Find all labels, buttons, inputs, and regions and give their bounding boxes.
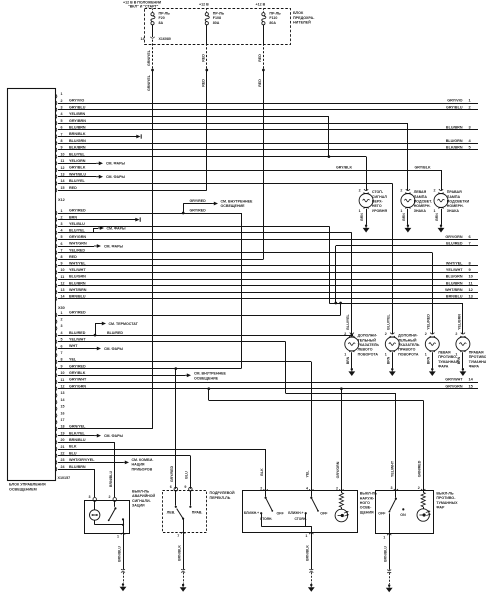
svg-text:ПРИБОРОВ: ПРИБОРОВ	[132, 467, 153, 471]
wire YEL/GRN pin11 offpage to headlamps	[58, 161, 126, 165]
svg-text:6: 6	[61, 344, 63, 348]
lamp license plate left	[400, 188, 432, 232]
turn switch left contact	[167, 490, 177, 514]
wire GRN/YEL X30 pin18 from fuse1	[58, 428, 153, 430]
wire BRN/BLK pin7 offpage	[58, 134, 141, 138]
fuse box border	[145, 9, 291, 45]
svg-text:2: 2	[109, 495, 111, 499]
svg-text:ПОВОРОТА: ПОВОРОТА	[398, 352, 419, 356]
pin 6 connector body X30	[55, 344, 78, 351]
svg-text:23: 23	[61, 458, 65, 462]
pin 24 connector body X30	[55, 465, 86, 472]
svg-text:BLU/BRN: BLU/BRN	[69, 126, 86, 130]
svg-text:АВАРИЙНОЙ: АВАРИЙНОЙ	[132, 494, 156, 498]
svg-text:BRN/BLU: BRN/BLU	[69, 438, 86, 442]
svg-text:BLU/GRN: BLU/GRN	[446, 275, 463, 279]
svg-text:ЗАЦИИ: ЗАЦИИ	[132, 504, 145, 508]
connector X10157 label	[58, 476, 71, 480]
svg-text:ON: ON	[400, 513, 406, 517]
label RED fuse2 below splice	[201, 79, 205, 87]
lamp right turn repeater	[385, 332, 420, 376]
svg-text:ФАР: ФАР	[436, 506, 445, 510]
svg-text:СМ. ФАРЫ: СМ. ФАРЫ	[106, 175, 126, 179]
svg-text:RED: RED	[69, 255, 77, 259]
svg-text:12: 12	[61, 281, 65, 285]
svg-text:BLU/RED: BLU/RED	[107, 331, 123, 335]
svg-text:ВЕРХ-: ВЕРХ-	[372, 200, 384, 204]
light switch illumination lamp	[335, 509, 349, 522]
svg-text:БЛИЖН.+: БЛИЖН.+	[288, 511, 303, 515]
power feed label +12V (3)	[256, 2, 266, 6]
wire YEL/RED X12 pin7 to fog lamp left	[58, 253, 433, 335]
svg-text:BLU/BRN: BLU/BRN	[69, 465, 86, 469]
pin 4 connector body X12	[55, 229, 85, 236]
pin 5 connector body X30	[55, 338, 86, 345]
pin 12 connector body X30	[55, 384, 86, 391]
wire YEL/WHT to fog switch pin3	[286, 342, 396, 491]
ground hazard switch	[120, 583, 127, 591]
svg-text:BRN: BRN	[457, 356, 461, 364]
svg-text:1: 1	[425, 352, 427, 356]
svg-text:ВЫКЛ-ЛЬ: ВЫКЛ-ЛЬ	[360, 492, 378, 496]
svg-text:F108: F108	[213, 16, 221, 20]
svg-text:10: 10	[61, 371, 65, 375]
svg-text:БЛОК: БЛОК	[293, 11, 304, 15]
svg-text:2: 2	[344, 332, 346, 336]
svg-text:СМ. ФАРЫ: СМ. ФАРЫ	[107, 226, 127, 230]
svg-text:BRN/BLU: BRN/BLU	[69, 295, 86, 299]
svg-text:YEL/RED: YEL/RED	[427, 314, 431, 330]
svg-text:ОСВЕЩЕНИЕМ: ОСВЕЩЕНИЕМ	[9, 487, 37, 491]
wire GRY/RED riser to steering column switch	[170, 369, 176, 489]
svg-text:ПРОТИВО-: ПРОТИВО-	[469, 355, 486, 359]
svg-text:1: 1	[344, 352, 346, 356]
wire RED X12 pin8 from fuse3	[58, 259, 263, 261]
lamp license plate right	[434, 188, 470, 232]
svg-text:GRY/WHT: GRY/WHT	[445, 378, 463, 382]
wire GRY/BLU pin3 to right 2	[58, 104, 478, 109]
svg-text:BLU/GRN: BLU/GRN	[69, 275, 86, 279]
fog switch pin 1	[383, 534, 391, 540]
wire YEL/BLU X12 pin3	[58, 226, 330, 303]
pin 16 connector body X30	[55, 411, 64, 418]
pin 3 connector body X30	[55, 324, 62, 331]
ground steering column switch	[180, 584, 187, 592]
pin 4 connector body group1	[55, 112, 85, 119]
svg-text:BLU/YEL: BLU/YEL	[346, 314, 350, 330]
svg-text:GRY/BLK: GRY/BLK	[415, 166, 431, 170]
svg-text:1: 1	[455, 352, 457, 356]
svg-text:ПЕРЕКЛ-ЛЬ: ПЕРЕКЛ-ЛЬ	[210, 496, 231, 500]
wire WHT/YEL X12 pin9 to right 8	[58, 261, 478, 266]
svg-text:21: 21	[61, 445, 65, 449]
wire GRY/RED X30 pin1	[58, 303, 341, 316]
svg-text:3: 3	[89, 495, 91, 499]
svg-text:GRY/RED: GRY/RED	[69, 311, 86, 315]
wire BLU/GRN pin8 to right 4	[58, 138, 478, 144]
svg-text:12: 12	[61, 166, 65, 170]
wire GRY/RED X12 pin1	[58, 213, 241, 215]
svg-text:ПР-ЛЬ: ПР-ЛЬ	[213, 12, 225, 16]
fog switch pin 2	[418, 486, 426, 490]
svg-text:BRN: BRN	[402, 213, 406, 221]
svg-text:2: 2	[434, 188, 436, 192]
svg-text:GRY/BLU: GRY/BLU	[446, 105, 463, 109]
light switch common bus	[261, 526, 311, 533]
svg-text:1: 1	[359, 209, 361, 213]
bus to right fog lamp	[329, 303, 463, 305]
label RED fuse3 below splice	[258, 79, 262, 87]
pin 9 connector body X12	[55, 262, 86, 269]
junction light switch riser on pin12	[340, 387, 343, 390]
pin 9 connector body X30	[55, 364, 86, 371]
svg-text:ПРЕДОХРА-: ПРЕДОХРА-	[293, 16, 315, 20]
svg-text:ФАРА: ФАРА	[438, 365, 449, 369]
svg-text:ЛЕВАЯ: ЛЕВАЯ	[414, 190, 427, 194]
ground fog lamp switch	[386, 584, 393, 592]
light switch label	[360, 492, 378, 515]
svg-text:YEL/BRN: YEL/BRN	[457, 314, 461, 330]
wire RED fuse3 down to X12 pin8 row	[263, 70, 265, 259]
steering column switch label	[210, 491, 236, 500]
svg-text:4: 4	[306, 486, 308, 490]
splice on RED fuse2	[205, 69, 208, 72]
svg-text:УКАЗАТЕЛЬ: УКАЗАТЕЛЬ	[398, 343, 420, 347]
svg-text:BLU/RED: BLU/RED	[69, 331, 86, 335]
svg-text:BRN: BRN	[69, 215, 77, 219]
svg-text:YEL/WHT: YEL/WHT	[390, 460, 394, 477]
lamp left turn repeater	[344, 332, 379, 376]
svg-text:1: 1	[400, 209, 402, 213]
svg-text:13: 13	[61, 391, 65, 395]
pin 12 connector body X12	[55, 281, 86, 288]
hazard switch box	[85, 501, 130, 534]
fuse F108 label	[213, 12, 225, 25]
wire BRN X12 pin2 offpage	[58, 217, 140, 221]
splice on RED fuse3	[262, 69, 265, 72]
wire BLU/RED riser	[335, 246, 337, 303]
svg-text:7: 7	[177, 534, 179, 538]
wire RED fuse2 down to pin15 row	[206, 70, 208, 190]
svg-text:ДОПОЛНИ-: ДОПОЛНИ-	[358, 334, 378, 338]
wire BLU/YEL pin10 to stop lamp	[58, 157, 367, 191]
svg-text:BLU/BRN: BLU/BRN	[446, 281, 463, 285]
hazard switch label	[132, 490, 156, 508]
svg-text:RED: RED	[258, 54, 262, 62]
svg-text:22: 22	[61, 452, 65, 456]
svg-text:10: 10	[469, 274, 473, 279]
junction X30 pin4 branch	[94, 334, 354, 337]
svg-text:BLU: BLU	[69, 451, 77, 455]
svg-text:ЗНАКА: ЗНАКА	[414, 209, 427, 213]
wire fuse1 feed	[152, 9, 154, 13]
svg-text:24: 24	[61, 465, 65, 469]
wire BRN/BLU hazard to ground	[117, 533, 125, 583]
svg-text:F110: F110	[269, 16, 277, 20]
light switch contact A	[244, 491, 285, 526]
wire WHT/BLU pin13 offpage to headlamps	[58, 175, 126, 179]
junction fog pin2 branch on X30 pin12 wire	[207, 387, 210, 390]
pin 6 connector body group1	[55, 126, 86, 133]
wire GRN/RED to fog switch pin2	[209, 389, 424, 491]
svg-text:ЗНАКА: ЗНАКА	[447, 209, 460, 213]
pin 11 connector body group1	[55, 159, 85, 166]
label RED fuse2 above splice	[201, 54, 205, 62]
pin 7 connector body X30	[55, 351, 62, 358]
svg-text:2: 2	[336, 486, 338, 490]
svg-text:OFF: OFF	[378, 512, 386, 516]
wire BRN/BLK light switch to ground	[306, 533, 314, 584]
svg-text:2: 2	[359, 188, 361, 192]
junction GRY/RED riser on bus	[339, 302, 342, 305]
svg-text:GRY/BLK: GRY/BLK	[69, 166, 86, 170]
pin 10 connector body X12	[55, 268, 86, 275]
svg-text:RED: RED	[201, 54, 205, 62]
branch GRY/RED to interior lighting	[183, 199, 253, 213]
wire GRY/VIO pin2 to right 1	[58, 98, 478, 104]
wire BRN/BLU X12 pin14 to right 13	[58, 294, 478, 299]
steering pin 6	[170, 485, 178, 491]
wire BLU/BRN X12 pin12 to right 11	[58, 280, 478, 285]
svg-text:20: 20	[61, 438, 65, 442]
pin 13 connector body X30	[55, 391, 64, 398]
svg-text:8: 8	[61, 139, 63, 143]
pin 6 connector body X12	[55, 242, 87, 249]
connector X12 label	[58, 198, 65, 202]
label RED fuse3 above splice	[258, 54, 262, 62]
svg-text:GRY/GRN: GRY/GRN	[69, 235, 86, 239]
svg-text:5: 5	[61, 235, 63, 239]
svg-text:7: 7	[61, 248, 63, 252]
light switch pin 2b	[336, 486, 344, 490]
pin 3 connector body group1	[55, 105, 85, 112]
svg-text:GRY/GRN: GRY/GRN	[445, 384, 462, 388]
svg-text:GRY/RED: GRY/RED	[190, 199, 207, 203]
pin 15 connector body X30	[55, 405, 64, 412]
pin 10 connector body X30	[55, 371, 85, 378]
junction GRY/RED branch	[182, 212, 185, 215]
svg-text:СМ. ФАРЫ: СМ. ФАРЫ	[104, 347, 124, 351]
pin 8 connector body group1	[55, 139, 86, 146]
svg-text:17: 17	[61, 418, 65, 422]
svg-text:ПР-ЛЬ: ПР-ЛЬ	[159, 12, 171, 16]
hazard pin 1	[117, 533, 125, 539]
svg-text:2: 2	[61, 215, 63, 219]
svg-text:15: 15	[61, 186, 65, 190]
ground exterior light switch	[308, 584, 315, 592]
svg-text:6: 6	[170, 485, 172, 489]
svg-text:4: 4	[61, 331, 63, 335]
svg-text:1: 1	[61, 92, 63, 96]
svg-text:BRN/BLK: BRN/BLK	[306, 545, 310, 561]
svg-text:6: 6	[61, 242, 63, 246]
pin 20 connector body X30	[55, 438, 86, 445]
wire BLK/YEL X30 pin19 offpage	[58, 434, 124, 438]
pin 9 connector body group1	[55, 146, 86, 153]
branch X12 pin4 offpage to headlamps	[93, 226, 126, 233]
svg-text:GRY/GRN: GRY/GRN	[69, 384, 86, 388]
junction BLU/RED riser on bus	[334, 302, 337, 305]
svg-text:ТУМАННАЯ: ТУМАННАЯ	[438, 360, 459, 364]
wire BLU X30 pin22 to steering column switch	[58, 456, 191, 489]
svg-text:BLU/RED: BLU/RED	[446, 242, 463, 246]
label GRN/YEL above splice	[147, 49, 151, 66]
svg-text:5: 5	[61, 119, 63, 123]
pin 1 connector body X30	[55, 311, 86, 318]
wire BLU/RED to right 7	[336, 241, 478, 246]
svg-text:13: 13	[61, 288, 65, 292]
svg-text:YEL/WHT: YEL/WHT	[69, 338, 86, 342]
svg-text:BRN/BLK: BRN/BLK	[177, 545, 181, 561]
wire GRY/BRN pin5 to license lamp left	[58, 123, 408, 190]
wire WHT/GRY/YEL X30 pin23 offpage to cluster	[58, 458, 154, 471]
wire BLU/BRN pin6 to right 3	[58, 125, 478, 130]
svg-text:УРОВНЯ: УРОВНЯ	[372, 209, 388, 213]
svg-text:GRY/GRN: GRY/GRN	[445, 235, 462, 239]
wire GRY/GRN riser to light switch	[336, 389, 342, 491]
svg-text:ТУМАННЫХ: ТУМАННЫХ	[436, 501, 458, 505]
connector X30 label	[58, 306, 65, 310]
svg-text:13: 13	[61, 173, 65, 177]
svg-text:1: 1	[61, 311, 63, 315]
svg-text:ЛЕВАЯ: ЛЕВАЯ	[438, 351, 451, 355]
svg-text:"ВКЛ" И "СТАРТ": "ВКЛ" И "СТАРТ"	[128, 5, 159, 9]
light switch contact B	[288, 491, 328, 526]
svg-text:GRY/RED: GRY/RED	[190, 209, 207, 213]
svg-text:BRN: BRN	[426, 356, 430, 364]
light control module label	[9, 483, 46, 492]
pin 8 connector body X12	[55, 255, 77, 262]
svg-text:2: 2	[425, 332, 427, 336]
svg-text:ПОДСВЕТКИ: ПОДСВЕТКИ	[447, 200, 470, 204]
wire RED fuse3 out	[263, 25, 265, 69]
wire RED fuse2 out	[206, 25, 208, 69]
svg-text:YEL/RED: YEL/RED	[69, 248, 85, 252]
wire RED pin15 from fuse2	[58, 190, 207, 192]
svg-text:ОСВЕЩЕНИЕ: ОСВЕЩЕНИЕ	[221, 204, 246, 208]
pin 23 connector body X30	[55, 458, 95, 465]
fuse F110 symbol	[262, 13, 266, 25]
svg-text:1: 1	[305, 534, 307, 538]
steering pin 7	[177, 532, 185, 538]
svg-text:ПРАВАЯ: ПРАВАЯ	[447, 190, 462, 194]
pin 19 connector body X30	[55, 431, 85, 438]
svg-text:BRN: BRN	[435, 213, 439, 221]
svg-text:80А: 80А	[269, 21, 276, 25]
fuse box label	[293, 11, 315, 25]
svg-text:BLU/BRN: BLU/BRN	[69, 281, 86, 285]
svg-text:GRY/RED: GRY/RED	[69, 364, 86, 368]
svg-text:2: 2	[455, 332, 457, 336]
wire GRY/GRN X12 pin5 to right 6	[58, 234, 478, 239]
svg-text:ДОПОЛНИ-: ДОПОЛНИ-	[398, 334, 418, 338]
svg-text:СМ. КОМБИ-: СМ. КОМБИ-	[132, 458, 155, 462]
wire BRN/BLK steering to ground	[177, 532, 185, 583]
wire YEL/WHT X12 pin10 to right 9	[58, 267, 478, 272]
turn switch blade	[177, 509, 185, 533]
svg-text:X30: X30	[58, 306, 65, 310]
svg-text:GRN/RED: GRN/RED	[418, 460, 422, 477]
lamp fog left	[425, 332, 459, 376]
svg-text:YEL/BLU: YEL/BLU	[69, 222, 85, 226]
svg-text:19: 19	[61, 431, 65, 435]
light switch pin 1	[305, 533, 313, 539]
svg-text:ЛАМПА: ЛАМПА	[414, 195, 428, 199]
pin 22 connector body X30	[55, 451, 77, 458]
svg-text:BLU: BLU	[185, 471, 189, 479]
svg-text:GRY/RED: GRY/RED	[170, 465, 174, 482]
wire GRY/BLK pin12 to license lamp right	[58, 166, 442, 191]
svg-text:BRN: BRN	[386, 356, 390, 364]
wire GRY/WHT X30 pin11 to right 14	[58, 377, 478, 383]
svg-text:BLU/GRN: BLU/GRN	[69, 139, 86, 143]
svg-text:ПОДРУЛЕВОЙ: ПОДРУЛЕВОЙ	[210, 491, 236, 495]
svg-text:9: 9	[61, 364, 63, 368]
svg-text:3: 3	[61, 324, 63, 328]
wire BRN/BLU X30 pin20 to hazard switch	[58, 442, 115, 497]
svg-text:WHT/GRY/YEL: WHT/GRY/YEL	[69, 458, 95, 462]
wire WHT/GRN X12 pin6 offpage	[58, 244, 124, 248]
fog switch illumination lamp	[417, 509, 431, 521]
svg-text:ЛАМПА: ЛАМПА	[447, 195, 461, 199]
pin 2 connector body X30	[55, 318, 62, 325]
svg-text:YEL/BRN: YEL/BRN	[69, 112, 86, 116]
svg-text:СМ. ФАРЫ: СМ. ФАРЫ	[106, 162, 126, 166]
hazard indicator lamp	[90, 501, 124, 525]
svg-text:WHT/BLU: WHT/BLU	[69, 172, 86, 176]
wire BLK/BRN pin9 to right 5	[58, 145, 478, 150]
svg-text:YEL/WHT: YEL/WHT	[446, 268, 463, 272]
svg-text:BRN/BLU: BRN/BLU	[446, 295, 463, 299]
svg-text:BLK: BLK	[69, 445, 77, 449]
svg-text:ВЫКЛ-ЛЬ: ВЫКЛ-ЛЬ	[132, 490, 150, 494]
svg-text:ЩЕНИЯ: ЩЕНИЯ	[360, 510, 374, 514]
hazard pin 3	[89, 495, 97, 501]
svg-text:14: 14	[61, 398, 65, 402]
svg-text:2: 2	[400, 188, 402, 192]
wire BRN/BLU fog switch to ground	[384, 534, 392, 584]
pin 17 connector body X30	[55, 418, 64, 425]
svg-text:8А: 8А	[159, 21, 164, 25]
light control module block	[8, 89, 56, 481]
svg-text:GRY/GRN: GRY/GRN	[336, 461, 340, 478]
svg-text:15: 15	[61, 405, 65, 409]
fog switch illumination resistor	[421, 490, 425, 508]
power feed label +12V ign	[123, 1, 162, 9]
svg-text:ТЕЛЬНЫЙ: ТЕЛЬНЫЙ	[398, 338, 417, 342]
svg-text:ПОДСВЕТ.: ПОДСВЕТ.	[414, 200, 432, 204]
svg-text:СМ. ФАРЫ: СМ. ФАРЫ	[104, 434, 124, 438]
svg-text:2: 2	[418, 486, 420, 490]
svg-text:2: 2	[385, 332, 387, 336]
svg-text:1: 1	[385, 352, 387, 356]
wire GRY/RED riser to X30 pin9 row	[241, 213, 243, 369]
svg-text:WHT/YEL: WHT/YEL	[69, 262, 86, 266]
svg-text:11: 11	[61, 275, 65, 279]
fog switch box	[376, 491, 434, 534]
svg-text:8: 8	[61, 255, 63, 259]
wire WHT X30 pin6 offpage	[58, 347, 124, 351]
wire BLU/YEL X12 pin4 to left turn repeater	[58, 233, 352, 335]
hazard switch contact	[108, 501, 124, 533]
svg-text:12: 12	[61, 385, 65, 389]
wire BLK X30 pin21 to light switch	[58, 449, 266, 491]
pin 14 connector body X12	[55, 295, 86, 302]
svg-text:BRN: BRN	[346, 356, 350, 364]
svg-text:НАРУЖ-: НАРУЖ-	[360, 496, 375, 500]
svg-text:4: 4	[61, 112, 63, 116]
svg-text:BLK: BLK	[260, 468, 264, 476]
